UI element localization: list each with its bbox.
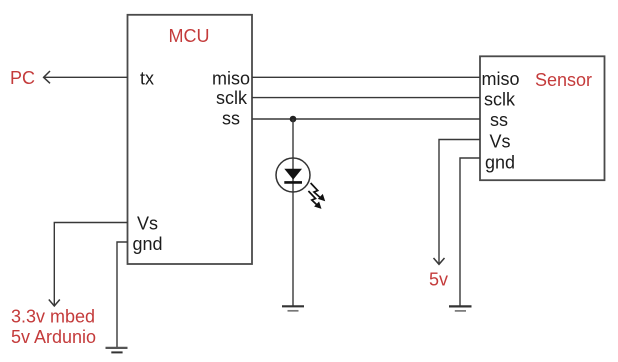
wire LED cathode to ground (292, 192, 294, 306)
svg-text:PC: PC (10, 68, 35, 88)
svg-text:tx: tx (140, 69, 154, 89)
ground for MCU (106, 348, 128, 353)
svg-text:5v: 5v (429, 270, 448, 290)
svg-text:ss: ss (222, 109, 240, 129)
svg-text:Vs: Vs (137, 214, 158, 234)
svg-text:sclk: sclk (216, 88, 248, 108)
svg-text:MCU: MCU (169, 26, 210, 46)
svg-text:5v Ardunio: 5v Ardunio (11, 327, 96, 347)
wire Vs of MCU to supply (54, 223, 127, 306)
ground for LED (282, 306, 304, 311)
wire gnd of sensor to ground (460, 158, 480, 306)
junction on ss wire (290, 116, 297, 123)
svg-text:gnd: gnd (133, 234, 163, 254)
wire tx to PC (44, 76, 128, 78)
arrowhead 5v supply (434, 258, 445, 264)
wire sclk (252, 97, 480, 99)
svg-text:ss: ss (490, 110, 508, 130)
ground for sensor (449, 306, 472, 311)
arrowhead to PC (44, 71, 50, 83)
arrowhead 3.3v supply (49, 300, 60, 307)
wire Vs of sensor to 5v supply (439, 140, 480, 264)
wire gnd of MCU to ground (117, 242, 128, 347)
LED D1 (276, 158, 310, 192)
svg-text:gnd: gnd (485, 153, 515, 173)
sensor U2 (480, 56, 605, 180)
wire junction to LED anode (292, 119, 294, 159)
LED light emission arrow 1 (311, 183, 326, 201)
wire ss (252, 118, 480, 120)
svg-text:miso: miso (482, 69, 520, 89)
svg-text:sclk: sclk (484, 90, 516, 110)
LED light emission arrow 2 (308, 191, 321, 209)
svg-text:3.3v mbed: 3.3v mbed (11, 306, 95, 326)
wire miso (252, 76, 480, 78)
MCU U1 (128, 15, 253, 264)
svg-text:Vs: Vs (490, 132, 511, 152)
svg-text:Sensor: Sensor (535, 70, 592, 90)
svg-text:miso: miso (212, 69, 250, 89)
